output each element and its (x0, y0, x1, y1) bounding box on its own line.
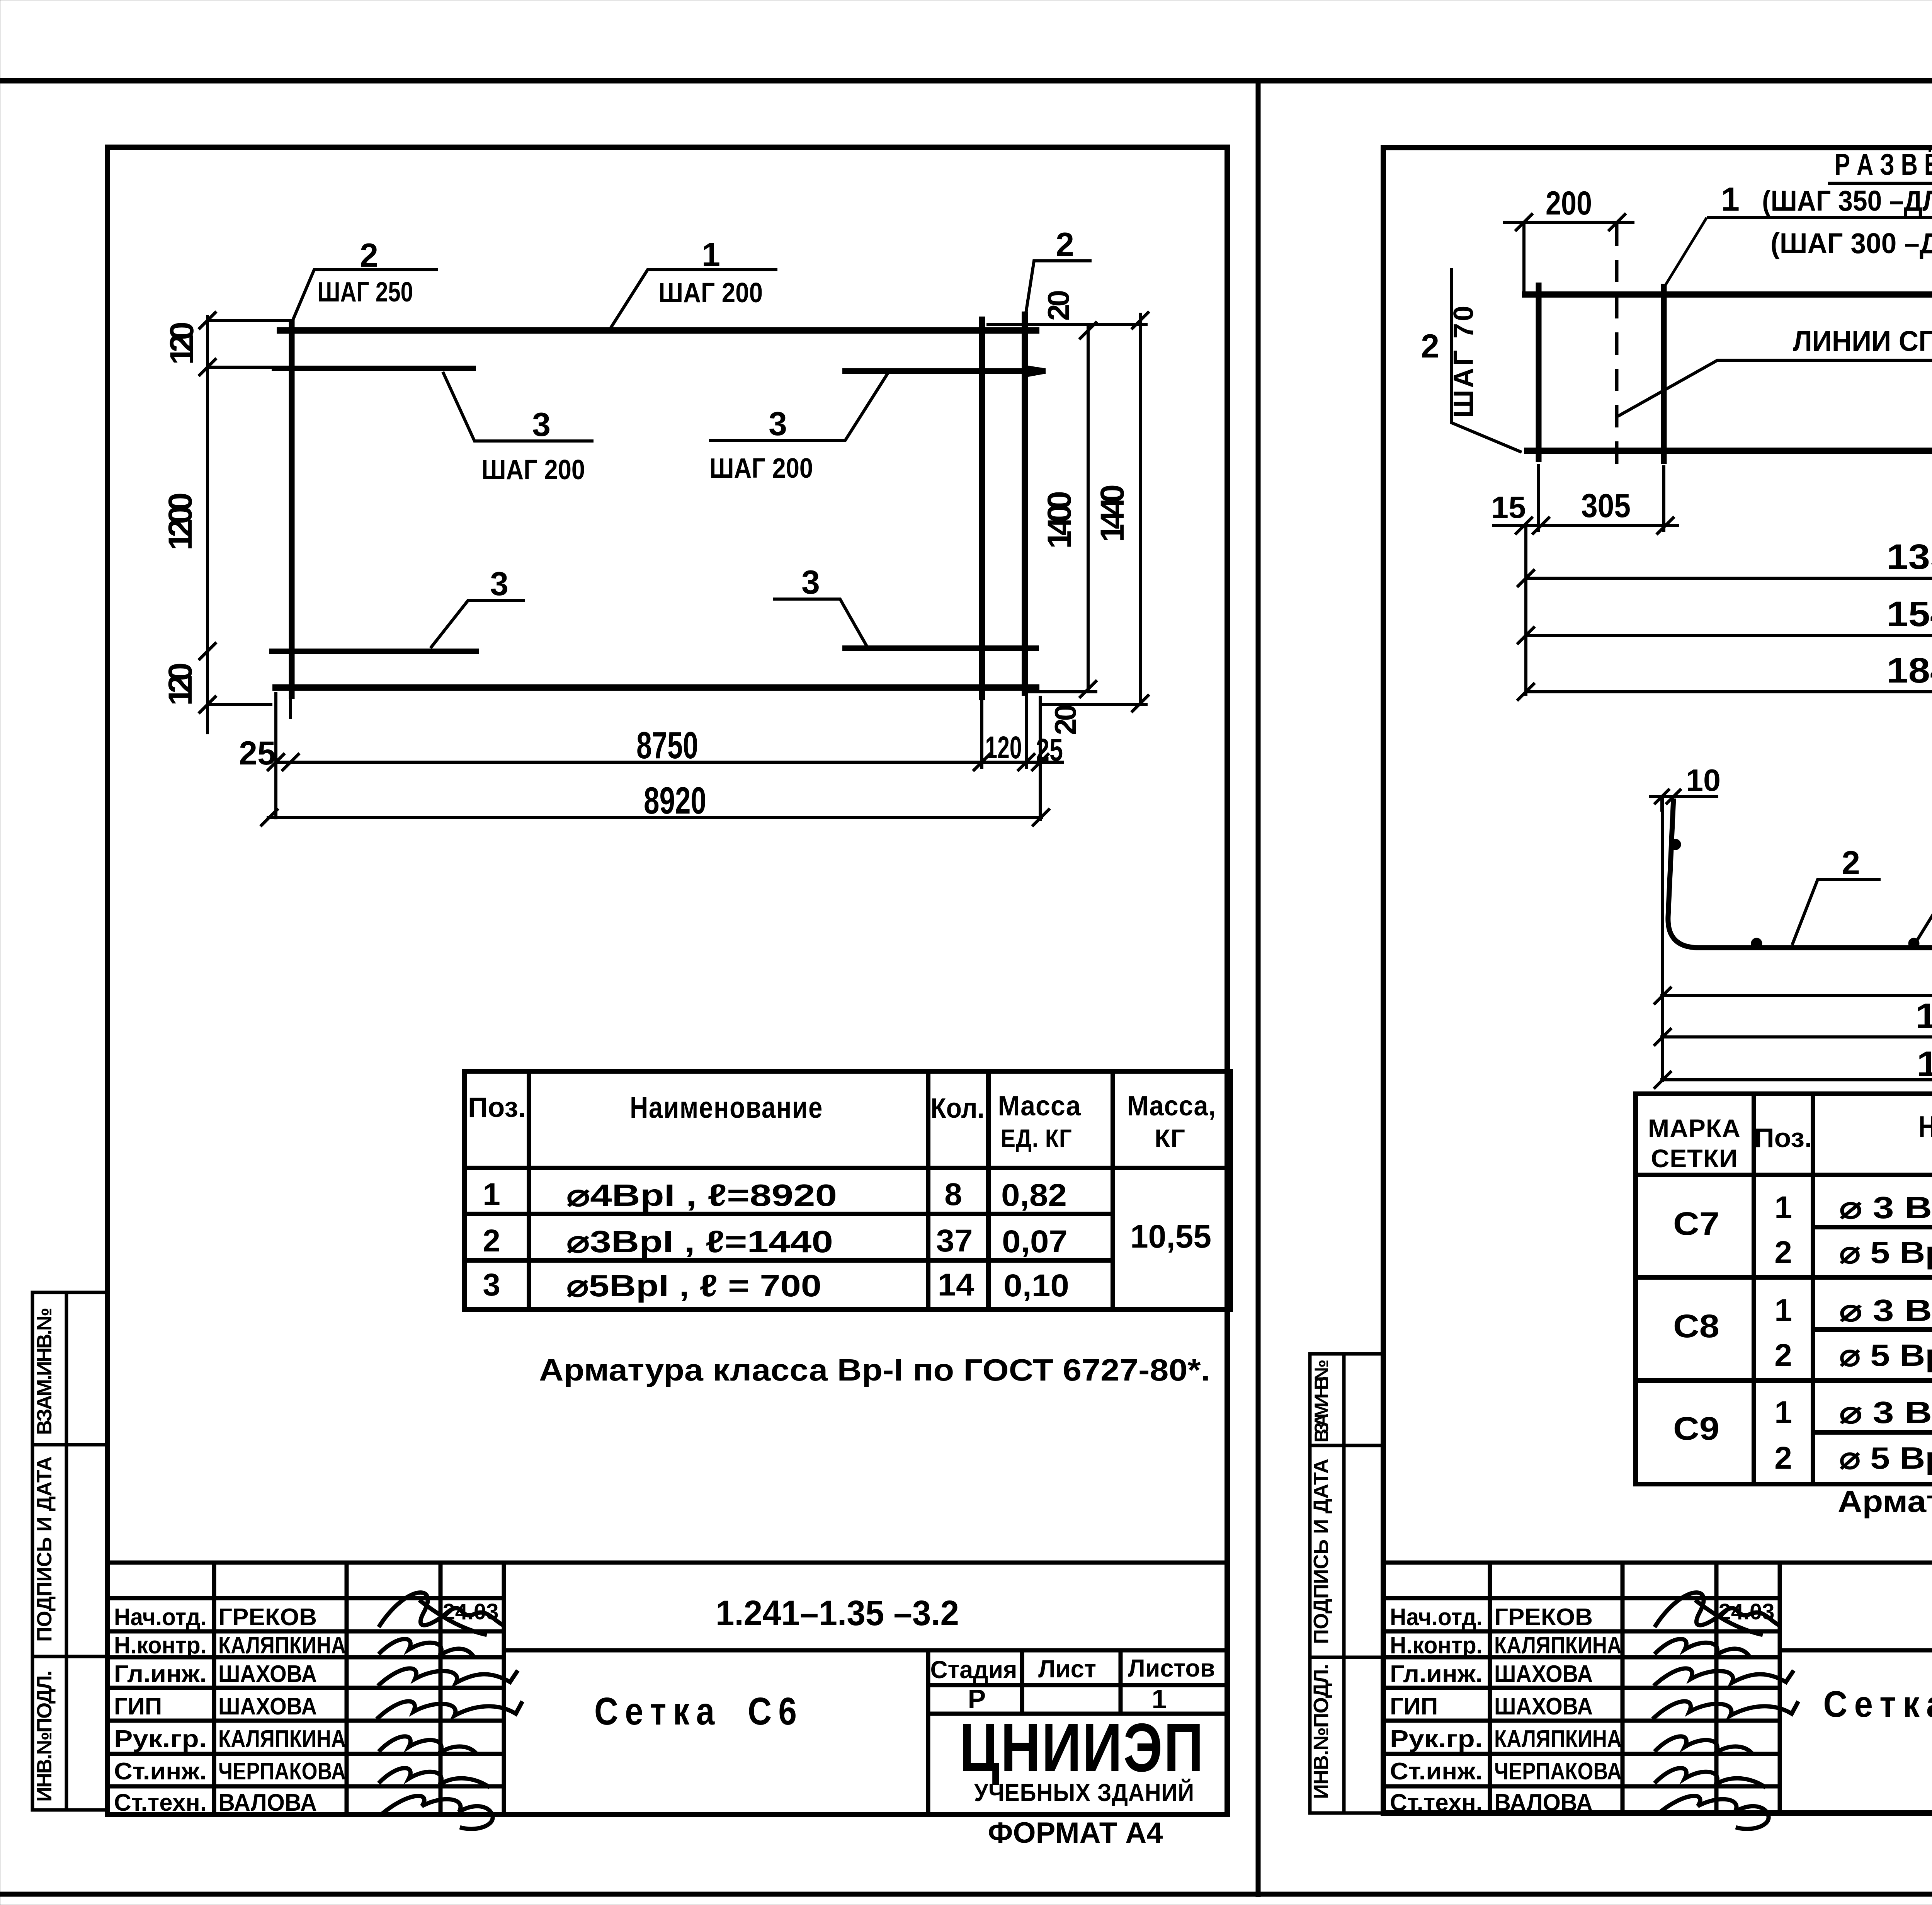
leader 2 shag 250 (293, 270, 438, 321)
svg-text:1440: 1440 (1094, 484, 1131, 542)
svg-text:Р А З В Ё Р Т К А: Р А З В Ё Р Т К А (1835, 147, 1932, 181)
razv bottom bar (1524, 448, 1932, 454)
razv dim 1840 dlya C9 (1526, 690, 1932, 693)
svg-text:2: 2 (1774, 1338, 1792, 1373)
dimension line 8750 (276, 691, 1064, 821)
svg-text:ЧЕРПАКОВА: ЧЕРПАКОВА (218, 1758, 346, 1785)
svg-text:0,82: 0,82 (1001, 1178, 1067, 1213)
svg-text:СЕТКИ: СЕТКИ (1651, 1144, 1738, 1173)
svg-text:КАЛЯПКИНА: КАЛЯПКИНА (218, 1726, 346, 1752)
svg-text:1200: 1200 (162, 492, 199, 550)
svg-text:⌀ 3 ВрI , ℓ=300: ⌀ 3 ВрI , ℓ=300 (1839, 1395, 1932, 1430)
svg-text:2: 2 (360, 237, 378, 274)
bottom border line (0, 1892, 1932, 1897)
svg-text:МАРКА: МАРКА (1648, 1114, 1741, 1142)
svg-text:1: 1 (1721, 181, 1740, 218)
svg-text:Масса,: Масса, (1127, 1091, 1216, 1122)
leader 3 lower-left (430, 601, 525, 648)
svg-text:КГ: КГ (1155, 1124, 1185, 1153)
svg-text:8: 8 (944, 1177, 962, 1212)
svg-text:Гл.инж.: Гл.инж. (114, 1661, 207, 1687)
svg-text:С е т к а С (С7. . . С9): С е т к а С (С7. . . С9) (1823, 1684, 1932, 1725)
leader 1 shag 200 (609, 270, 777, 331)
svg-text:ВАЛОВА: ВАЛОВА (1494, 1789, 1593, 1816)
wire pos1 top bar (277, 327, 1039, 334)
svg-text:ГИП: ГИП (1390, 1693, 1438, 1720)
razv wire left 2 (1661, 284, 1667, 464)
svg-text:ГРЕКОВ: ГРЕКОВ (1494, 1604, 1593, 1631)
svg-text:2: 2 (1056, 226, 1074, 263)
svg-text:2: 2 (483, 1223, 500, 1258)
svg-text:1: 1 (1774, 1395, 1792, 1430)
svg-text:2: 2 (1421, 328, 1439, 365)
svg-text:1400: 1400 (1041, 491, 1078, 549)
svg-text:120: 120 (162, 662, 199, 706)
svg-text:Ст.инж.: Ст.инж. (114, 1758, 207, 1785)
svg-text:1: 1 (1774, 1190, 1792, 1225)
svg-text:20: 20 (1041, 290, 1075, 321)
wire pos3 upper-right bar (842, 368, 1045, 374)
svg-text:8920: 8920 (644, 779, 706, 822)
razv label 2 shag 70 (1452, 268, 1522, 452)
svg-text:120: 120 (985, 730, 1022, 765)
svg-text:2: 2 (1774, 1235, 1792, 1270)
svg-text:1.241–1.35 –3.2: 1.241–1.35 –3.2 (716, 1593, 959, 1633)
svg-text:С е т к а С 6: С е т к а С 6 (594, 1690, 797, 1733)
svg-text:1440: 1440 (1917, 1044, 1932, 1084)
svg-text:3: 3 (769, 405, 787, 443)
razv liniya sgiba leaders (1618, 360, 1932, 416)
svg-text:КАЛЯПКИНА: КАЛЯПКИНА (1494, 1726, 1622, 1752)
left signatures (377, 1592, 522, 1829)
svg-text:(ШАГ 300 –ДЛЯ С8 И С9): (ШАГ 300 –ДЛЯ С8 И С9) (1770, 227, 1932, 259)
svg-text:ШАГ 250: ШАГ 250 (318, 277, 413, 308)
left table frame (464, 1071, 1231, 1309)
svg-text:37: 37 (936, 1223, 973, 1258)
svg-text:Рук.гр.: Рук.гр. (1390, 1726, 1483, 1752)
svg-text:ЛИНИИ СГИБА: ЛИНИИ СГИБА (1793, 325, 1932, 357)
dimension line 1400 right (1087, 324, 1090, 690)
svg-text:КАЛЯПКИНА: КАЛЯПКИНА (1494, 1632, 1622, 1659)
svg-text:ЧЕРПАКОВА: ЧЕРПАКОВА (1494, 1758, 1622, 1785)
razv wire left 1 (1536, 283, 1542, 462)
bent section wire dots (1670, 839, 1681, 850)
svg-text:ШАХОВА: ШАХОВА (218, 1693, 317, 1720)
svg-text:ЦНИИЭП: ЦНИИЭП (959, 1709, 1205, 1786)
leader 3 upper-left shag 200 (443, 372, 594, 441)
svg-text:Нач.отд.: Нач.отд. (1390, 1604, 1483, 1631)
right sheet frame (1383, 148, 1932, 1813)
svg-text:⌀ 5 ВрI , ℓ=1350: ⌀ 5 ВрI , ℓ=1350 (1839, 1235, 1932, 1270)
svg-text:0,07: 0,07 (1002, 1224, 1068, 1259)
wire pos3 upper-left bar (272, 366, 476, 371)
wire pos3 lower-left bar (269, 649, 479, 654)
bent leader 2 (1792, 880, 1881, 945)
svg-text:1840: 1840 (1887, 651, 1932, 690)
razv heading leader (1662, 218, 1707, 290)
svg-text:ШАХОВА: ШАХОВА (1494, 1693, 1593, 1720)
svg-text:1350: 1350 (1887, 537, 1932, 577)
svg-text:Наименование: Наименование (630, 1090, 823, 1124)
svg-text:1540: 1540 (1887, 594, 1932, 634)
svg-text:10: 10 (1686, 763, 1721, 797)
svg-text:Листов: Листов (1128, 1654, 1215, 1682)
top border line (0, 78, 1932, 83)
right signatures (1653, 1592, 1798, 1829)
svg-text:2: 2 (1774, 1440, 1792, 1476)
svg-text:1: 1 (1774, 1293, 1792, 1328)
svg-text:Арматура класса Вр-I по ГОС: Арматура класса Вр-I по ГОСТ 6727-80*. (1838, 1484, 1932, 1519)
leader 3 upper-right shag 200 (709, 372, 889, 441)
svg-text:ФОРМАТ А4: ФОРМАТ А4 (988, 1816, 1163, 1849)
svg-text:Ст.техн.: Ст.техн. (1390, 1789, 1483, 1816)
svg-text:Лист: Лист (1038, 1655, 1096, 1683)
leader 3 lower-right (773, 599, 867, 647)
svg-text:ГРЕКОВ: ГРЕКОВ (218, 1604, 317, 1631)
wire pos3 lower-right bar (842, 645, 1039, 651)
svg-text:Нач.отд.: Нач.отд. (114, 1604, 207, 1631)
svg-text:3: 3 (801, 564, 820, 601)
svg-text:15: 15 (1491, 490, 1526, 524)
wire pos1 bottom bar (272, 684, 1039, 691)
svg-text:⌀3ВрI , ℓ=1440: ⌀3ВрI , ℓ=1440 (566, 1224, 833, 1259)
right table frame (1636, 1094, 1932, 1484)
svg-text:Кол.: Кол. (930, 1093, 985, 1124)
svg-text:Арматура класса Вр-I по ГОС: Арматура класса Вр-I по ГОСТ 6727-80*. (539, 1353, 1210, 1387)
svg-text:Рук.гр.: Рук.гр. (114, 1726, 207, 1752)
svg-text:ЕД. КГ: ЕД. КГ (1001, 1124, 1072, 1153)
svg-text:0,10: 0,10 (1003, 1268, 1069, 1303)
razv fold line left dashed (1615, 223, 1619, 464)
svg-text:1: 1 (702, 236, 720, 273)
svg-text:ГИП: ГИП (114, 1693, 162, 1720)
svg-text:ВЗАМ.ИНВ.№: ВЗАМ.ИНВ.№ (33, 1307, 56, 1435)
svg-text:3: 3 (532, 406, 551, 443)
svg-text:Стадия: Стадия (930, 1656, 1017, 1684)
svg-text:КАЛЯПКИНА: КАЛЯПКИНА (218, 1632, 346, 1659)
bent dim 10 left (1649, 797, 1718, 812)
left title block grid (107, 1563, 1227, 1815)
right title block grid (1383, 1563, 1932, 1813)
razv dim 1350 dlya C7 (1526, 577, 1932, 580)
svg-text:Ст.техн.: Ст.техн. (114, 1789, 207, 1816)
svg-text:3: 3 (483, 1267, 500, 1302)
wire pos2 right vertical A (979, 317, 985, 700)
dimension 120 top left (207, 315, 294, 734)
bent dim 1440 dlya C9 (1660, 1078, 1932, 1081)
svg-text:(ШАГ 350 –ДЛЯ С7): (ШАГ 350 –ДЛЯ С7) (1762, 185, 1932, 217)
svg-text:ПОДПИСЬ И ДАТА: ПОДПИСЬ И ДАТА (33, 1456, 56, 1642)
svg-text:⌀5ВрI , ℓ = 700: ⌀5ВрI , ℓ = 700 (566, 1268, 821, 1303)
svg-text:200: 200 (1546, 185, 1592, 222)
wire pos2 right vertical B (1022, 312, 1028, 696)
svg-text:Н.контр.: Н.контр. (1390, 1632, 1483, 1659)
wire pos2 left vertical (289, 319, 295, 699)
svg-text:ШАХОВА: ШАХОВА (218, 1661, 317, 1687)
svg-text:⌀ 5 ВрI , ℓ=1840: ⌀ 5 ВрI , ℓ=1840 (1839, 1441, 1932, 1475)
svg-text:ШАГ 200: ШАГ 200 (658, 277, 763, 308)
razv top bar (1522, 291, 1932, 298)
svg-text:ШАХОВА: ШАХОВА (1494, 1661, 1593, 1687)
svg-text:ИНВ.№ПОДЛ.: ИНВ.№ПОДЛ. (33, 1670, 56, 1802)
svg-text:Гл.инж.: Гл.инж. (1390, 1661, 1483, 1687)
svg-text:Н.контр.: Н.контр. (114, 1632, 207, 1659)
svg-text:14: 14 (938, 1267, 975, 1302)
svg-text:3: 3 (490, 565, 509, 603)
svg-text:Масса: Масса (998, 1091, 1081, 1122)
svg-text:Поз.: Поз. (1754, 1123, 1812, 1153)
razv dim 200 left (1503, 222, 1634, 292)
right margin stamp boxes (1310, 1354, 1383, 1813)
svg-text:УЧЕБНЫХ ЗДАНИЙ: УЧЕБНЫХ ЗДАНИЙ (974, 1778, 1194, 1806)
svg-text:ШАГ 200: ШАГ 200 (481, 455, 585, 485)
sheet separator line (1256, 81, 1261, 1897)
svg-text:⌀4ВрI , ℓ=8920: ⌀4ВрI , ℓ=8920 (566, 1178, 837, 1212)
razv dim 1540 dlya C8 (1526, 634, 1932, 637)
svg-text:2: 2 (1842, 844, 1860, 882)
svg-text:8750: 8750 (636, 724, 698, 766)
svg-text:305: 305 (1581, 487, 1631, 524)
bent leader 1 (1915, 881, 1932, 943)
svg-text:10,55: 10,55 (1130, 1218, 1211, 1255)
bent dim 950 dlya C7 (1660, 797, 1932, 1082)
svg-text:Ст.инж.: Ст.инж. (1390, 1758, 1483, 1785)
svg-text:1140: 1140 (1915, 996, 1932, 1036)
svg-text:Наименование: Наименование (1918, 1110, 1932, 1144)
svg-text:⌀ 5 ВрI , ℓ=1540: ⌀ 5 ВрI , ℓ=1540 (1839, 1338, 1932, 1372)
svg-text:ИНВ.№ПОДЛ.: ИНВ.№ПОДЛ. (1310, 1664, 1333, 1799)
leader 2 right (1026, 261, 1092, 313)
razv dim 15 305 left (1492, 464, 1679, 532)
svg-text:ШАГ 200: ШАГ 200 (709, 453, 813, 484)
svg-text:⌀ 3 ВрI , ℓ=300: ⌀ 3 ВрI , ℓ=300 (1839, 1293, 1932, 1328)
svg-text:ВАЛОВА: ВАЛОВА (218, 1789, 317, 1816)
svg-text:ВЗАМ.ИНВ.№: ВЗАМ.ИНВ.№ (1311, 1360, 1332, 1443)
svg-text:С8: С8 (1673, 1308, 1719, 1344)
svg-text:С7: С7 (1673, 1205, 1719, 1242)
svg-text:⌀ 3 ВрI , ℓ=300: ⌀ 3 ВрI , ℓ=300 (1839, 1190, 1932, 1225)
left margin stamp boxes (32, 1292, 107, 1810)
svg-text:С9: С9 (1673, 1410, 1719, 1447)
dimension line 8920 (267, 816, 1043, 819)
dimension line 1440 right (1028, 313, 1148, 705)
razv length dim verticals (1526, 461, 1932, 696)
left sheet frame (107, 147, 1227, 1815)
svg-text:ПОДПИСЬ И ДАТА: ПОДПИСЬ И ДАТА (1310, 1459, 1333, 1644)
bent dim 1140 dlya C8 (1660, 948, 1932, 1082)
bent section channel bar (1668, 798, 1932, 948)
svg-text:25: 25 (1036, 732, 1063, 768)
svg-text:1: 1 (483, 1177, 500, 1212)
svg-text:20: 20 (1048, 704, 1082, 735)
svg-text:Поз.: Поз. (468, 1092, 526, 1123)
svg-text:120: 120 (163, 322, 201, 365)
